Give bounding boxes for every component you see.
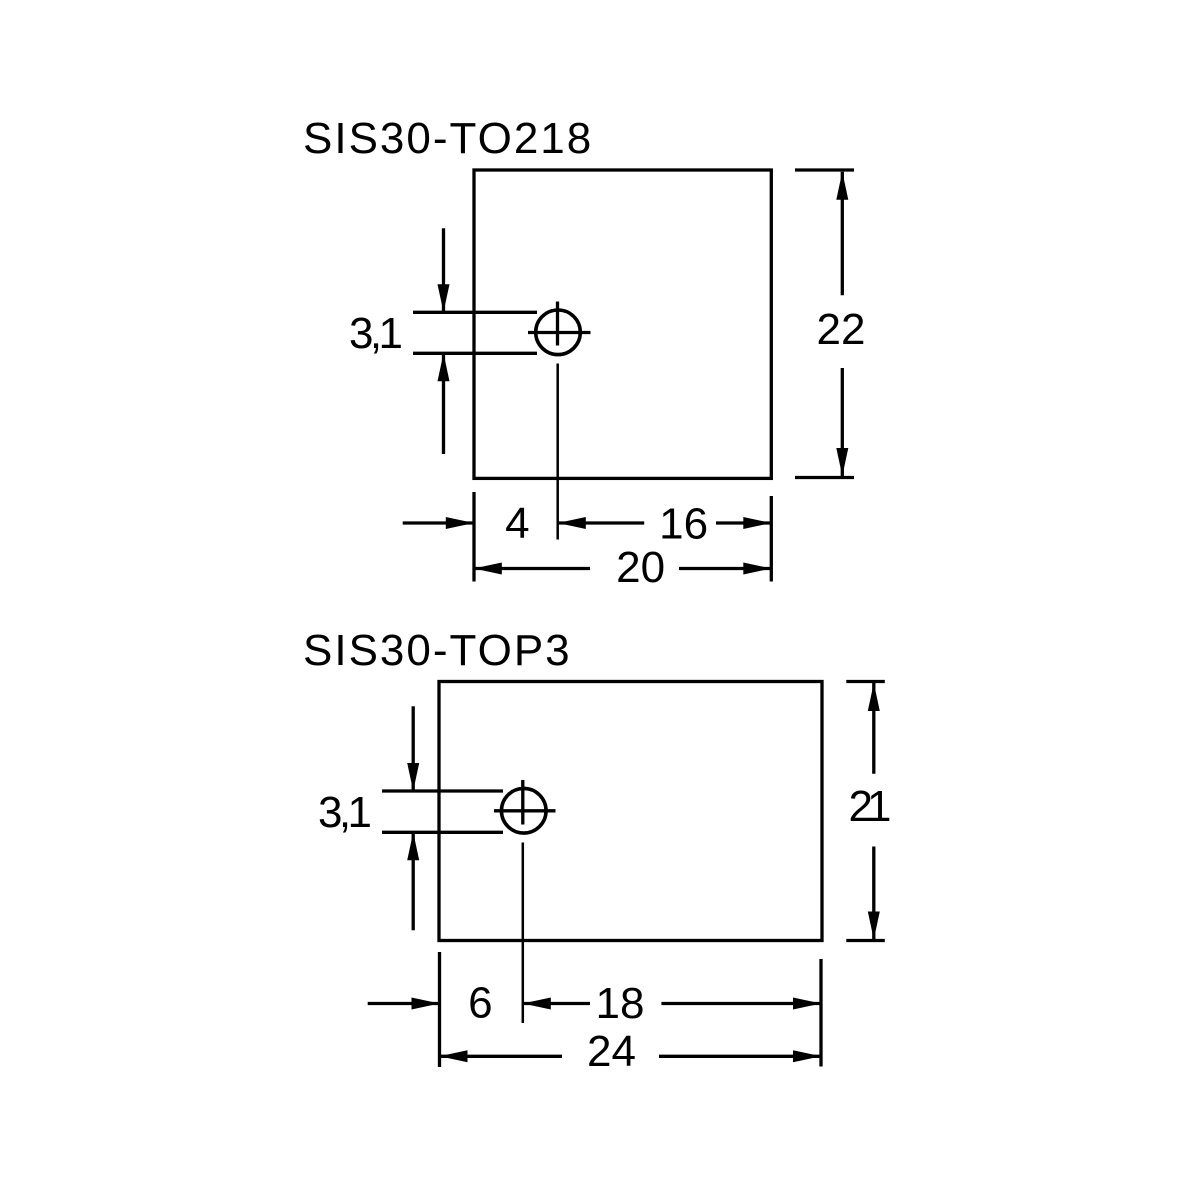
svg-text:3,1: 3,1 bbox=[318, 788, 372, 837]
svg-text:SIS30-TO218: SIS30-TO218 bbox=[303, 114, 593, 163]
svg-text:SIS30-TOP3: SIS30-TOP3 bbox=[303, 626, 572, 675]
svg-text:22: 22 bbox=[817, 305, 866, 354]
svg-text:20: 20 bbox=[616, 543, 665, 592]
svg-text:18: 18 bbox=[596, 979, 645, 1028]
svg-text:21: 21 bbox=[849, 782, 892, 831]
svg-text:6: 6 bbox=[468, 979, 492, 1028]
svg-text:16: 16 bbox=[659, 500, 708, 549]
svg-text:3,1: 3,1 bbox=[349, 309, 403, 358]
svg-text:24: 24 bbox=[587, 1027, 636, 1076]
svg-text:4: 4 bbox=[505, 499, 529, 548]
